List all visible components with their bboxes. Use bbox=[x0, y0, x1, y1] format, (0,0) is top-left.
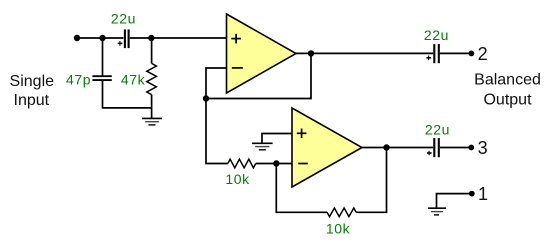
svg-text:1: 1 bbox=[478, 184, 488, 204]
svg-text:Single: Single bbox=[10, 73, 55, 90]
svg-text:47p: 47p bbox=[66, 72, 91, 88]
wire cap C1 to op-amp U1 +in bbox=[130, 37, 227, 39]
wire cap C4 to terminal 3 bbox=[440, 147, 471, 149]
svg-text:47k: 47k bbox=[121, 72, 146, 88]
wire feedback junction down to R2 bbox=[206, 99, 228, 164]
svg-text:3: 3 bbox=[478, 138, 488, 158]
resistor R1 47k bbox=[147, 63, 157, 94]
node terminal 1 bbox=[469, 191, 475, 197]
node B junction 47k bbox=[148, 35, 154, 41]
node U2 output bbox=[383, 144, 389, 150]
capacitor C3 22u bbox=[434, 44, 439, 63]
svg-text:22u: 22u bbox=[424, 27, 449, 43]
wire R2 to U2 -in bbox=[256, 163, 292, 165]
node input terminal bbox=[74, 35, 80, 41]
wire U1 out to cap C3 bbox=[296, 52, 433, 54]
node U1 output bbox=[308, 50, 314, 56]
svg-text:10k: 10k bbox=[326, 220, 351, 236]
svg-text:10k: 10k bbox=[225, 171, 250, 187]
svg-text:22u: 22u bbox=[425, 122, 450, 138]
wire 47k bottom to ground bbox=[151, 95, 153, 119]
op-amp U2 bbox=[292, 108, 362, 187]
wire terminal 1 to ground bbox=[437, 194, 472, 209]
wire U1 feedback loop bbox=[206, 53, 311, 98]
capacitor C4 22u bbox=[434, 138, 439, 157]
svg-text:22u: 22u bbox=[111, 11, 136, 27]
resistor R3 10k bbox=[327, 208, 356, 217]
wire U2 out to cap C4 bbox=[362, 147, 433, 149]
node feedback junction bbox=[203, 95, 209, 101]
wire U2 feedback loop bbox=[356, 148, 386, 213]
ground G3 bbox=[428, 208, 446, 215]
node A junction 47p bbox=[99, 35, 105, 41]
capacitor C1 22u bbox=[125, 29, 129, 48]
wire input to cap C1 bbox=[77, 37, 123, 39]
ground G1 bbox=[142, 118, 162, 125]
node terminal 3 bbox=[468, 145, 474, 151]
svg-text:Output: Output bbox=[483, 92, 532, 109]
wire node A down to 47p bbox=[102, 38, 104, 76]
svg-text:2: 2 bbox=[478, 44, 488, 64]
wire R3 to U2 -in junction bbox=[276, 164, 327, 213]
wire cap C3 to terminal 2 bbox=[440, 52, 472, 54]
op-amp U1 bbox=[227, 14, 297, 93]
wire 47p bottom to ground rail bbox=[103, 81, 153, 108]
node U2 -in junction bbox=[273, 160, 279, 166]
svg-text:Input: Input bbox=[14, 92, 50, 109]
node terminal 2 bbox=[469, 51, 475, 57]
capacitor C2 47p bbox=[92, 76, 111, 80]
wire U2 +in to ground bbox=[262, 134, 292, 144]
wire node B down to 47k bbox=[151, 38, 153, 63]
ground G2 bbox=[252, 143, 273, 150]
svg-text:Balanced: Balanced bbox=[474, 72, 541, 89]
resistor R2 10k bbox=[228, 159, 256, 168]
